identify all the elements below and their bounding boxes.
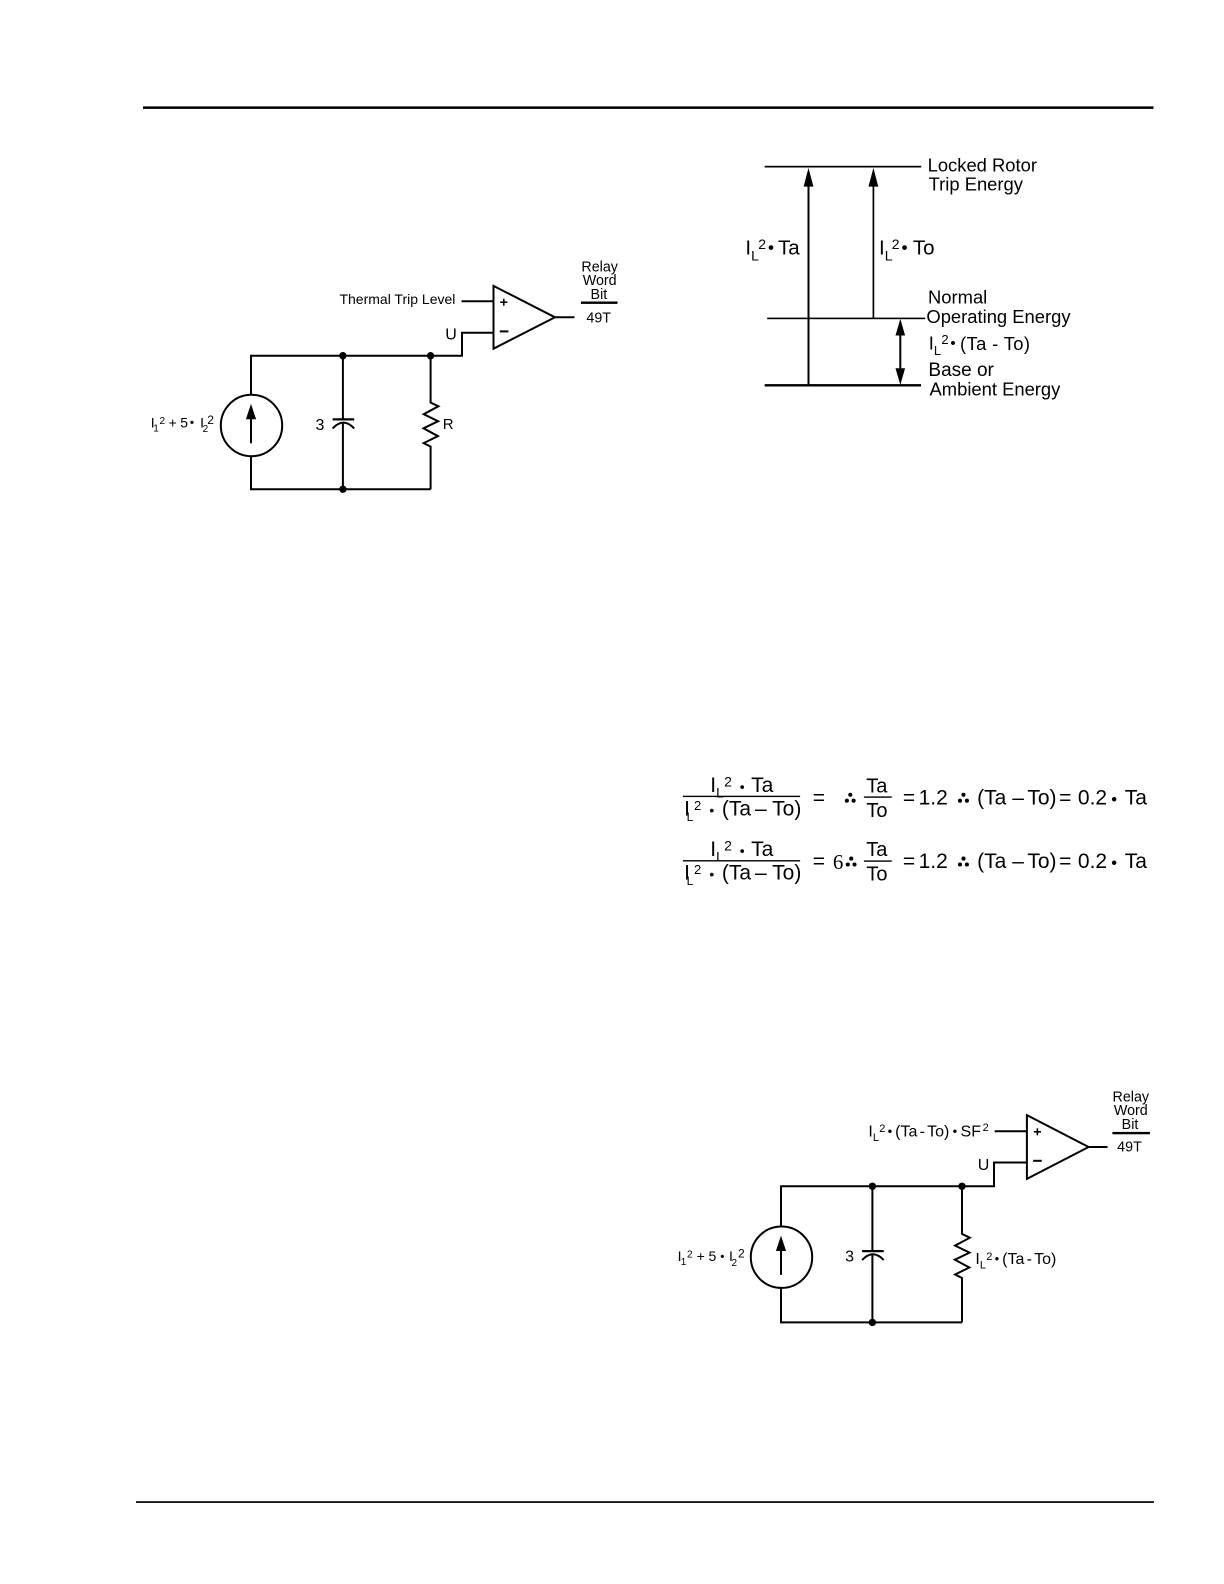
arrow IL^2*Ta (base to locked rotor)	[808, 185, 810, 386]
equation 2 therefore #2	[958, 857, 969, 867]
svg-text:Thermal Trip Level: Thermal Trip Level	[339, 291, 455, 307]
node: top rail / capacitor junction	[339, 352, 346, 359]
svg-text:6: 6	[833, 850, 844, 874]
svg-text:Ta: Ta	[1125, 786, 1148, 809]
wire: op-amp output (circuit 2)	[1089, 1146, 1108, 1148]
node: bottom rail / capacitor junction (circuit 2)	[869, 1319, 876, 1326]
svg-text:IL2•To: IL2•To	[879, 236, 934, 263]
svg-text:49T: 49T	[586, 311, 611, 327]
current source I1^2 + 5*I2^2 (circuit 2)	[751, 1227, 812, 1288]
svg-text:•: •	[1111, 855, 1117, 873]
svg-text:I12+5•I22: I12+5•I22	[678, 1247, 745, 1269]
svg-text:IL2•(Ta–To): IL2•(Ta–To)	[684, 861, 801, 888]
capacitor 3 (circuit 2): top branch wire	[871, 1186, 873, 1251]
base or ambient energy level line	[765, 384, 921, 386]
svg-text:Normal: Normal	[928, 287, 987, 308]
wire: source bottom to bottom rail	[250, 456, 252, 489]
arrow IL^2*To (normal operating to locked rotor)	[872, 185, 874, 319]
svg-text:3: 3	[845, 1249, 854, 1266]
svg-text:Bit: Bit	[591, 287, 608, 303]
svg-text:1.2: 1.2	[919, 786, 948, 809]
wire: top rail with jog up to op-amp inverting input	[250, 333, 494, 356]
svg-text:Ambient Energy: Ambient Energy	[930, 378, 1062, 399]
op-amp U1 plus mark	[500, 299, 507, 306]
op-amp comparator U2	[1027, 1115, 1089, 1179]
capacitor 3 : bottom branch wire	[342, 423, 344, 489]
equation 1 therefore #2	[958, 793, 969, 803]
svg-text:=: =	[1059, 850, 1071, 873]
capacitor 3 (circuit 2): curved plate	[862, 1254, 884, 1260]
wire: source top to rail	[250, 356, 252, 395]
svg-text:To: To	[866, 800, 887, 822]
svg-text:(Ta–To): (Ta–To)	[977, 850, 1056, 873]
svg-text:To: To	[866, 864, 887, 886]
svg-text:Ta: Ta	[1125, 850, 1148, 873]
double arrow IL^2*(Ta-To) (base to normal operating)	[899, 332, 901, 372]
svg-text:49T: 49T	[1117, 1140, 1142, 1156]
svg-text:=: =	[813, 786, 825, 809]
wire: source bottom to bottom rail (circuit 2)	[780, 1288, 782, 1323]
page bottom rule	[136, 1501, 1154, 1503]
svg-text:=: =	[813, 850, 825, 873]
svg-text:0.2: 0.2	[1078, 786, 1107, 809]
wire: SF^2 label to op-amp non-inverting input (circuit 2)	[995, 1130, 1027, 1132]
svg-text:IL2•(Ta - To): IL2•(Ta - To)	[929, 332, 1031, 358]
op-amp U2 minus mark	[1033, 1160, 1042, 1162]
svg-text:IL2•Ta: IL2•Ta	[745, 236, 800, 263]
op-amp U2 plus mark	[1034, 1128, 1041, 1135]
svg-text:Trip Energy: Trip Energy	[929, 174, 1024, 195]
wire: bottom rail (circuit 2)	[780, 1321, 962, 1323]
capacitor 3 (circuit 2): straight plate	[862, 1250, 884, 1252]
resistor IL^2*(Ta-To) (circuit 2)	[955, 1186, 970, 1322]
svg-text:Operating Energy: Operating Energy	[926, 306, 1071, 327]
svg-text:Ta: Ta	[866, 839, 888, 861]
wire: source top to rail (circuit 2)	[780, 1186, 782, 1226]
node: bottom rail / capacitor junction	[339, 486, 346, 493]
equation 2 therefore #1	[846, 857, 857, 867]
svg-text:IL2•(Ta-To): IL2•(Ta-To)	[975, 1251, 1056, 1272]
resistor R	[424, 356, 439, 490]
op-amp comparator U1	[494, 286, 556, 349]
equation 1 fraction bar	[683, 796, 800, 797]
page top rule	[143, 106, 1154, 109]
capacitor 3 : curved plate	[333, 423, 355, 429]
current source I1^2 + 5*I2^2	[221, 395, 282, 456]
svg-text:U: U	[445, 327, 457, 344]
node U: top rail / resistor junction	[427, 352, 434, 359]
svg-text:3: 3	[315, 417, 324, 434]
wire: Thermal Trip Level to op-amp non-inverting input	[462, 300, 494, 302]
svg-text:0.2: 0.2	[1078, 850, 1107, 873]
svg-text:1.2: 1.2	[919, 850, 948, 873]
svg-text:IL2•(Ta–To): IL2•(Ta–To)	[684, 797, 801, 824]
equation 1 therefore #1	[845, 793, 856, 803]
svg-text:=: =	[903, 786, 915, 809]
locked rotor trip energy level line	[765, 166, 922, 168]
node U: top rail / resistor junction (circuit 2)	[958, 1183, 965, 1190]
svg-text:Ta: Ta	[866, 775, 888, 797]
normal operating energy level line	[767, 318, 925, 320]
svg-text:I12+5•I22: I12+5•I22	[151, 413, 214, 435]
wire: bottom rail	[250, 488, 431, 490]
svg-text:U: U	[978, 1157, 990, 1174]
op-amp U1 minus mark	[500, 330, 509, 332]
capacitor 3 (circuit 2): bottom branch wire	[871, 1255, 873, 1322]
svg-text:Locked Rotor: Locked Rotor	[928, 155, 1037, 176]
svg-text:•: •	[1111, 791, 1117, 809]
wire: op-amp output	[555, 316, 575, 318]
svg-text:(Ta–To): (Ta–To)	[977, 786, 1056, 809]
node: top rail / capacitor junction (circuit 2)	[869, 1183, 876, 1190]
svg-text:Bit: Bit	[1122, 1117, 1139, 1133]
wire: top rail with jog up to op-amp inverting input (circuit 2)	[780, 1163, 1027, 1187]
svg-text:R: R	[443, 416, 454, 433]
capacitor 3 : straight plate	[333, 418, 355, 420]
svg-text:=: =	[1059, 786, 1071, 809]
capacitor 3 : top branch wire	[342, 356, 344, 420]
svg-text:IL2•(Ta-To)•SF2: IL2•(Ta-To)•SF2	[868, 1122, 988, 1144]
svg-text:=: =	[903, 850, 915, 873]
equation 2 fraction bar	[683, 860, 800, 861]
